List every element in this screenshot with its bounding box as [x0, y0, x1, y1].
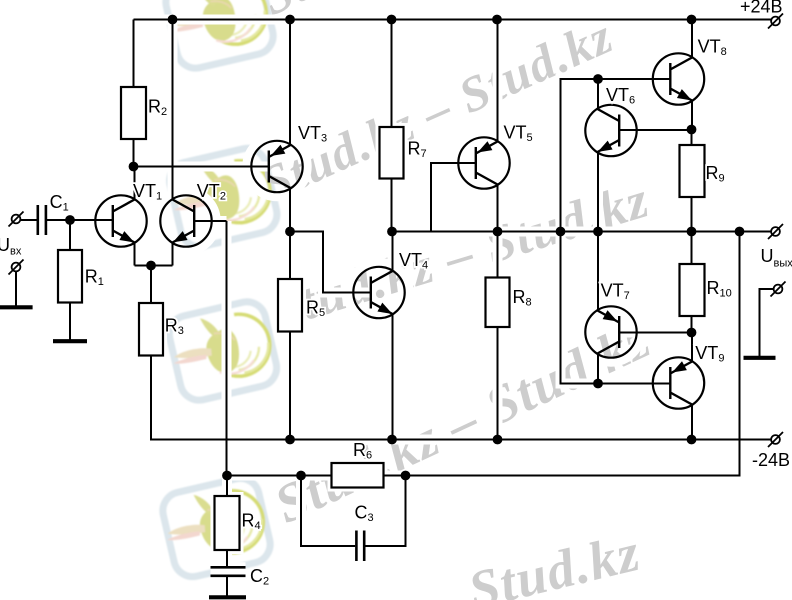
resistor R2 — [121, 87, 146, 139]
node R10 / VT7 base / VT9 collector — [687, 328, 697, 338]
capacitor C3 — [356, 531, 364, 562]
capacitor C2 — [211, 567, 246, 576]
wire VT3 emitter lead up — [289, 20, 291, 146]
node R8 / -24V rail — [493, 435, 503, 445]
wire VT7 collector lead — [597, 232, 599, 311]
node VT9 emitter / -24V rail — [687, 435, 697, 445]
node VT5 collector / +24V rail — [492, 15, 502, 25]
wire VT4 emitter lead — [392, 314, 394, 439]
wire R5 bottom lead — [289, 332, 291, 440]
wire R7 top lead — [391, 20, 393, 128]
resistor R10 — [680, 264, 705, 316]
wire feedback node to R6 — [227, 475, 332, 477]
wire emitter bridge — [135, 265, 173, 267]
wire VT2 collector lead — [172, 20, 174, 200]
wire R7 bottom lead — [391, 179, 393, 232]
ground output — [744, 356, 776, 360]
resistor R9 — [680, 145, 705, 197]
wire VT8 collector lead — [691, 20, 693, 58]
wire feedback from output — [406, 232, 740, 476]
node feedback / R4 / VT2 base — [222, 471, 232, 481]
wire R3 top lead — [150, 266, 152, 304]
resistor R1 — [58, 250, 82, 303]
wire VT4 collector lead — [392, 232, 394, 272]
terminal input ground — [9, 260, 24, 275]
node VT8 emitter / VT6 base / R9 — [687, 125, 697, 135]
node VT7 emitter / VT9 base — [593, 379, 603, 389]
terminal output ground — [771, 282, 786, 297]
node R7 / VT4 collector — [387, 227, 397, 237]
node VT5 emitter / R8 — [493, 227, 503, 237]
transistor VT4 — [353, 267, 404, 318]
wire VT5 collector lead up — [497, 20, 499, 142]
wire mid output rail — [392, 231, 771, 233]
wire VT9 emitter lead — [691, 405, 693, 440]
node VT3 collector / R5 — [285, 227, 295, 237]
resistor R7 — [380, 127, 404, 179]
node R2 / VT1 collector — [129, 162, 139, 172]
wire R8 bottom lead — [497, 327, 499, 440]
wire VT5 emitter lead down — [497, 185, 499, 232]
transistor VT8 — [653, 53, 704, 104]
wire R10 top lead — [691, 232, 693, 265]
wire VT9 base lead — [598, 383, 670, 385]
wire VT4 base run — [290, 232, 371, 293]
wire R10 bottom lead — [691, 316, 693, 333]
ground C2 — [209, 595, 246, 599]
resistor R3 — [139, 303, 163, 356]
node R7 / +24V rail — [387, 15, 397, 25]
ground input — [0, 305, 33, 309]
wire VT7 emitter lead — [597, 353, 599, 383]
transistor VT7 — [585, 306, 636, 357]
wire C2 to ground — [226, 577, 228, 596]
transistor VT5 — [458, 137, 509, 188]
svg-text:-24В: -24В — [752, 450, 790, 470]
node C1 / R1 / VT1 base — [65, 215, 75, 225]
terminal -24V — [768, 432, 783, 447]
wire R5 top lead — [289, 232, 291, 280]
wire output ground branch — [760, 289, 774, 356]
wire input terminal 2 down — [15, 272, 17, 306]
wire VT7 base lead — [620, 332, 692, 334]
transistor VT6 — [585, 105, 636, 156]
terminal input Uvx — [9, 212, 24, 227]
node VT6 emitter / VT7 collector — [593, 227, 603, 237]
resistor R5 — [278, 279, 302, 332]
wire VT1 collector lead — [134, 167, 136, 200]
wire VT3 collector lead down — [289, 188, 291, 232]
node VT3 emitter / +24V rail — [285, 15, 295, 25]
node feedback tap — [735, 227, 745, 237]
transistor VT9 — [653, 357, 704, 408]
wire R1 top lead — [69, 220, 71, 250]
ground R1 — [53, 339, 87, 343]
wire VT2 emitter lead — [172, 243, 174, 265]
wire R9 bottom lead — [691, 197, 693, 232]
wire R2 bottom lead — [133, 139, 135, 167]
wire VT5 base run — [431, 163, 476, 232]
wire VT8 base net — [561, 79, 671, 232]
wire R8 top lead — [497, 232, 499, 278]
node VT8 base branch — [556, 227, 566, 237]
wire R9 top lead — [691, 130, 693, 146]
wire input to C1 — [21, 219, 37, 221]
wire VT1 collector to VT3 base — [134, 166, 269, 168]
wire R2 top lead — [133, 20, 135, 88]
node C3 left branch — [296, 471, 306, 481]
node R6 / C3 right — [401, 471, 411, 481]
terminal +24V — [768, 14, 783, 29]
wire R1 bottom lead — [69, 303, 71, 340]
wire VT6 emitter lead — [597, 152, 599, 232]
wire +24V top rail — [134, 19, 772, 21]
wire VT8 emitter lead — [691, 100, 693, 129]
wire VT6 base lead — [620, 129, 692, 131]
transistor VT1 — [95, 195, 146, 246]
node VT8 collector / +24V rail — [687, 15, 697, 25]
wire VT2 base feedback vertical — [226, 221, 228, 476]
svg-text:+24В: +24В — [740, 0, 783, 17]
wire VT9 collector lead — [691, 333, 693, 362]
wire R4 to C2 — [226, 550, 228, 566]
node VT1-VT2 emitters — [146, 261, 156, 271]
wire VT1 emitter lead — [134, 243, 136, 265]
node R9 / R10 rail — [687, 227, 697, 237]
node VT2 collector / +24V rail — [168, 15, 178, 25]
capacitor C1 — [38, 205, 46, 235]
wire C3 branch right — [365, 476, 405, 547]
wire C3 branch left — [301, 476, 355, 547]
wire C1 to VT1 base — [47, 219, 112, 221]
wire VT6 collector lead — [597, 79, 599, 109]
node VT6 collector / VT8 base — [593, 74, 603, 84]
node VT4 emitter / -24V rail — [387, 435, 397, 445]
wire VT2 base lead — [195, 220, 227, 222]
resistor R8 — [486, 278, 510, 328]
wire VT9 base net — [561, 232, 599, 384]
transistor VT3 — [251, 141, 302, 192]
wire R6 to output feedback — [384, 475, 407, 477]
wire R3 bottom to -24V rail — [151, 356, 771, 440]
transistor VT2 — [160, 195, 211, 246]
resistor R4 — [215, 496, 240, 550]
wire R4 top lead — [226, 476, 228, 497]
node R5 / -24V rail — [285, 435, 295, 445]
terminal output Uvyx — [768, 224, 783, 239]
resistor R6 — [332, 463, 384, 488]
